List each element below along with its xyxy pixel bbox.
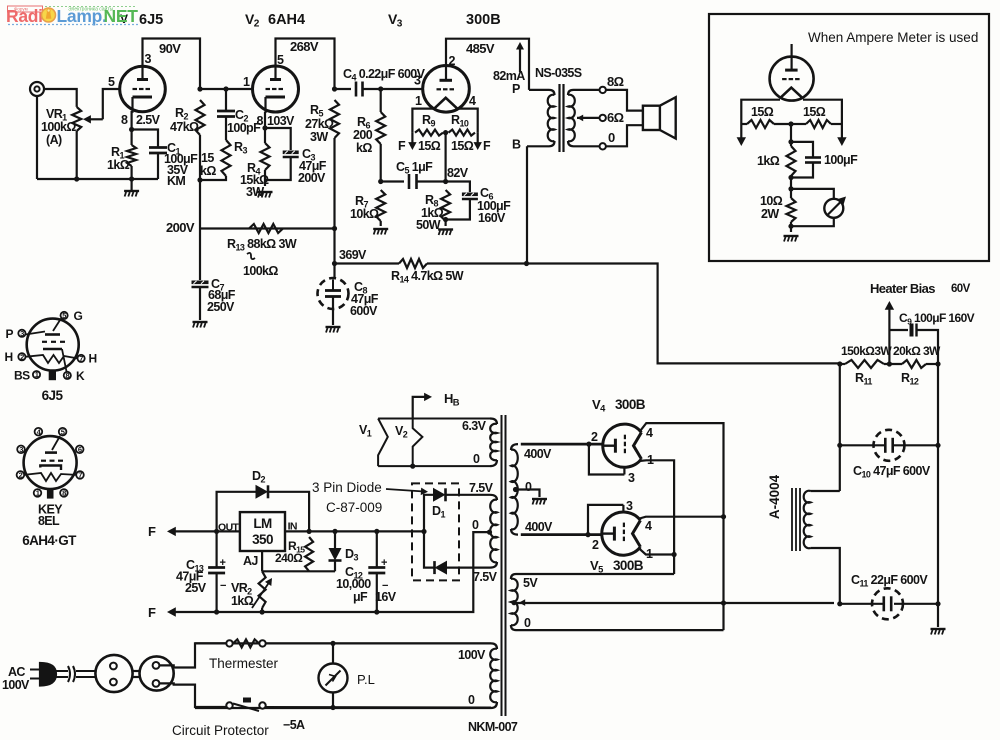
capacitor C10 can style <box>840 444 884 446</box>
svg-text:Circuit Protector: Circuit Protector <box>172 723 269 738</box>
svg-text:B: B <box>512 138 521 152</box>
svg-text:90V: 90V <box>159 41 181 56</box>
inset F arrow left <box>740 124 742 140</box>
svg-text:3: 3 <box>19 445 23 454</box>
svg-text:82mA: 82mA <box>493 69 525 83</box>
capacitor C13 <box>216 531 218 567</box>
svg-text:600V: 600V <box>350 304 378 318</box>
svg-text:8: 8 <box>62 489 66 498</box>
ground below R7 <box>373 228 388 230</box>
resistor R13 <box>249 224 283 233</box>
V4 pin 4 wire <box>641 423 724 630</box>
7.5V center tap <box>487 530 492 535</box>
arrow 82mA <box>519 46 521 72</box>
svg-text:1kΩ: 1kΩ <box>231 594 254 608</box>
pilot lamp P.L <box>332 643 334 663</box>
squiggle tilde <box>247 253 255 259</box>
svg-text:6: 6 <box>78 445 82 454</box>
svg-text:NET: NET <box>104 6 139 26</box>
wire jack down to bottom rail <box>36 96 38 179</box>
vacuum tube V5 300B rectifier <box>602 512 641 555</box>
circuit protector switch <box>226 702 232 708</box>
svg-text:100V: 100V <box>2 678 30 692</box>
diode D1 top <box>424 495 433 532</box>
V5 pin 4 wire <box>640 517 724 519</box>
wire protector to primary bottom <box>266 706 491 709</box>
svg-text:2: 2 <box>591 430 598 444</box>
svg-text:BS: BS <box>14 369 30 383</box>
ground below C7 <box>193 321 208 323</box>
svg-text:268V: 268V <box>290 39 319 54</box>
svg-text:7: 7 <box>78 471 82 480</box>
wire V2 plate to top rail <box>276 39 335 90</box>
400V center tap <box>513 487 518 492</box>
400V bottom rail to V5 <box>521 533 602 536</box>
svg-text:+: + <box>220 557 226 569</box>
svg-text:7.5V: 7.5V <box>469 481 494 495</box>
svg-text:LM: LM <box>253 516 272 531</box>
svg-text:2W: 2W <box>761 207 779 221</box>
svg-text:6J5: 6J5 <box>42 388 64 403</box>
svg-text:3: 3 <box>626 499 633 513</box>
svg-text:350: 350 <box>252 532 273 547</box>
svg-text:200V: 200V <box>298 171 326 185</box>
RadioLamp.NET logo <box>6 6 138 27</box>
svg-text:NKM-007: NKM-007 <box>468 720 518 734</box>
ground below R4 <box>258 191 273 193</box>
svg-text:F: F <box>398 139 406 153</box>
resistor R8 <box>441 190 450 221</box>
potentiometer VR1 <box>72 107 81 131</box>
pointer to D1 box <box>386 489 424 492</box>
primary 100V winding <box>195 642 491 644</box>
F arrow right <box>477 133 479 146</box>
diode D3 <box>334 531 336 548</box>
wire 8 Ohm to speaker <box>606 90 643 111</box>
AC connector socket circle <box>140 656 174 690</box>
svg-text:0: 0 <box>472 518 479 532</box>
ground below R8 <box>438 228 453 230</box>
F arrow bottom <box>167 607 176 616</box>
svg-text:KM: KM <box>167 174 185 188</box>
svg-text:1kΩ: 1kΩ <box>107 158 130 172</box>
svg-text:6J5: 6J5 <box>139 12 163 28</box>
svg-text:K: K <box>76 369 85 383</box>
V2 heater chevron <box>413 419 423 467</box>
svg-text:2: 2 <box>19 471 23 480</box>
svg-text:10Ω: 10Ω <box>760 194 783 208</box>
svg-text:Radi: Radi <box>6 6 43 26</box>
socket diagram 6AH4-GT <box>17 427 84 498</box>
svg-text:2: 2 <box>20 352 24 361</box>
ground below right bus <box>937 604 939 627</box>
resistor R3 <box>222 140 231 176</box>
svg-text:60V: 60V <box>951 283 971 295</box>
inset filament rail <box>741 100 780 124</box>
svg-text:16V: 16V <box>375 590 397 604</box>
svg-text:8: 8 <box>66 371 70 380</box>
wire V1 plate to top rail <box>143 39 201 90</box>
diode D2 top loop <box>217 492 256 532</box>
svg-text:100μF: 100μF <box>824 153 858 167</box>
inset F arrow right <box>841 124 843 140</box>
wire B from primary to 369V junction <box>526 146 528 263</box>
capacitor C1 <box>132 130 158 148</box>
secondary tap 0 <box>574 145 600 147</box>
speaker <box>643 106 660 130</box>
diode D1 bottom <box>424 532 435 568</box>
svg-text:kΩ: kΩ <box>200 164 216 178</box>
inset ampere meter <box>791 189 834 199</box>
5V winding <box>511 579 518 626</box>
svg-text:27kΩ: 27kΩ <box>305 117 334 131</box>
svg-text:82V: 82V <box>447 166 469 180</box>
svg-text:1: 1 <box>415 94 422 108</box>
node V1 plate to V2 grid coupling wire <box>200 88 253 90</box>
heater bias arrow <box>888 307 890 330</box>
svg-text:5V: 5V <box>523 576 538 590</box>
inset ground <box>784 235 799 237</box>
svg-text:AJ: AJ <box>243 554 258 568</box>
secondary tap 8 Ohm <box>574 89 600 91</box>
resistor R9 <box>415 130 443 136</box>
wire V2 cathode <box>264 112 266 143</box>
svg-text:100V: 100V <box>458 648 486 662</box>
heater loop V1 V2 6.3V winding <box>378 418 490 420</box>
AC connector plug circle <box>95 655 132 692</box>
V4 grid tie bracket <box>589 444 625 474</box>
6.3V winding <box>490 419 497 425</box>
wire 7.5V bottom to D1 <box>448 566 491 568</box>
svg-text:H: H <box>5 350 13 364</box>
resistor R4 <box>261 143 270 170</box>
wires socket to thermistor and protector <box>159 643 226 667</box>
input jack J1 <box>30 82 44 96</box>
svg-text:P.L: P.L <box>357 672 375 687</box>
F arrow left <box>411 133 413 146</box>
wire B junction to R11 <box>527 264 842 364</box>
svg-text:100kΩ: 100kΩ <box>243 264 278 278</box>
svg-text:μF: μF <box>353 590 368 604</box>
svg-text:250V: 250V <box>207 300 235 314</box>
svg-text:25V: 25V <box>185 581 207 595</box>
svg-text:10kΩ: 10kΩ <box>350 207 379 221</box>
svg-text:0: 0 <box>524 616 531 630</box>
svg-text:8Ω: 8Ω <box>607 74 624 89</box>
vacuum tube V4 300B rectifier <box>603 424 642 467</box>
resistor R7 <box>376 190 385 221</box>
svg-text:15: 15 <box>201 151 214 165</box>
ground below C8 <box>326 326 341 328</box>
svg-text:15Ω: 15Ω <box>418 139 441 153</box>
vacuum tube V3 300B <box>423 66 470 113</box>
wire jack to VR1 top <box>44 89 77 107</box>
inset resistor 15 Ohm right <box>806 120 831 128</box>
svg-text:G: G <box>74 309 83 323</box>
wire left bus to choke <box>839 363 841 491</box>
inset resistor 15 Ohm left <box>747 120 774 128</box>
svg-text:150kΩ3W: 150kΩ3W <box>841 344 892 358</box>
secondary tap 6 Ohm <box>577 117 600 119</box>
svg-text:6AH4: 6AH4 <box>268 12 305 28</box>
svg-text:0: 0 <box>525 480 532 494</box>
svg-text:Thermester: Thermester <box>209 656 279 671</box>
inset capacitor 100uF <box>791 142 813 157</box>
svg-text:100kΩ: 100kΩ <box>41 120 76 134</box>
svg-text:369V: 369V <box>339 248 367 262</box>
svg-text:(A): (A) <box>46 133 62 147</box>
capacitor C4 coupling <box>335 88 352 90</box>
svg-text:F: F <box>148 524 156 539</box>
F arrow top <box>167 527 176 536</box>
vacuum tube V2 6AH4 <box>253 66 299 112</box>
wire 5V top rail <box>516 573 674 575</box>
svg-text:400V: 400V <box>525 520 553 534</box>
vacuum tube V1 6J5 <box>120 66 166 112</box>
resistor R11 <box>845 360 884 368</box>
svg-text:AC: AC <box>8 665 25 679</box>
svg-text:5: 5 <box>108 75 115 89</box>
inset tube 300B <box>770 57 814 101</box>
svg-text:2: 2 <box>449 54 456 68</box>
svg-text:3 Pin Diode: 3 Pin Diode <box>312 480 382 495</box>
svg-text:A-4004: A-4004 <box>767 474 782 519</box>
svg-text:3: 3 <box>414 74 421 88</box>
capacitor C8 <box>333 264 335 279</box>
400V top rail to V4 <box>521 443 603 446</box>
resistor R6 <box>380 89 382 112</box>
svg-text:Heater Bias: Heater Bias <box>870 281 935 296</box>
svg-text:15Ω: 15Ω <box>751 105 774 119</box>
svg-text:103V: 103V <box>267 114 295 128</box>
choke A-4004 <box>811 490 840 492</box>
svg-text:15Ω: 15Ω <box>451 139 474 153</box>
wire IN line <box>285 530 424 532</box>
resistor R12 <box>902 360 926 368</box>
svg-text:P: P <box>6 327 14 341</box>
svg-text:−5A: −5A <box>283 718 305 732</box>
svg-text:−: − <box>220 580 226 592</box>
svg-text:7.5V: 7.5V <box>473 570 498 584</box>
thermistor <box>226 640 232 646</box>
svg-text:kΩ: kΩ <box>356 141 372 155</box>
svg-text:200V: 200V <box>166 220 195 235</box>
svg-text:C5 1μF: C5 1μF <box>396 160 433 176</box>
capacitor C2 <box>225 89 227 110</box>
capacitor C3 <box>265 128 291 150</box>
output transformer NS-035S primary <box>529 89 549 91</box>
V5 pin 1 wire <box>640 549 675 555</box>
svg-text:10,000: 10,000 <box>336 577 371 591</box>
400V winding <box>511 444 518 450</box>
capacitor C7 <box>199 229 201 281</box>
svg-text:+: + <box>381 557 387 569</box>
svg-text:160V: 160V <box>478 211 506 225</box>
svg-text:5: 5 <box>61 427 65 436</box>
LM350 box <box>240 512 285 551</box>
wire V3 plate to 485V rail <box>446 39 529 90</box>
svg-text:F: F <box>148 605 156 620</box>
resistor R5 <box>330 100 339 138</box>
resistor R10 <box>449 130 476 136</box>
svg-text:C-87-009: C-87-009 <box>326 500 382 515</box>
svg-text:0: 0 <box>473 452 480 466</box>
wire 369V rail with R14 <box>335 262 400 264</box>
svg-text:H: H <box>89 352 97 366</box>
svg-text:2: 2 <box>592 538 599 552</box>
svg-text:8: 8 <box>257 114 264 128</box>
svg-text:300B: 300B <box>613 558 644 573</box>
inset box when ampere meter is used <box>709 14 989 261</box>
svg-text:OUT: OUT <box>218 522 240 534</box>
capacitor C6 <box>446 182 470 193</box>
transformer core <box>558 84 560 152</box>
ground bus right <box>937 364 939 604</box>
svg-text:When Ampere Meter is used: When Ampere Meter is used <box>808 30 978 45</box>
svg-text:5: 5 <box>62 311 66 320</box>
wire bottom rail V1 stage <box>37 178 158 180</box>
svg-text:0: 0 <box>608 130 615 145</box>
power transformer core <box>501 415 503 716</box>
V1 heater chevron <box>378 419 388 467</box>
svg-text:20kΩ 3W: 20kΩ 3W <box>893 344 941 358</box>
svg-text:8EL: 8EL <box>38 514 60 528</box>
diode box D1 dashed <box>412 483 459 580</box>
inset resistor 1kOhm <box>790 124 792 146</box>
wire 200V rail <box>200 227 335 229</box>
svg-text:1: 1 <box>243 75 250 89</box>
V5 grid tie bracket <box>588 505 623 535</box>
svg-text:485V: 485V <box>466 41 495 56</box>
svg-text:F: F <box>483 139 491 153</box>
wire 0 to speaker <box>606 125 643 146</box>
svg-text:3: 3 <box>628 471 635 485</box>
svg-text:1kΩ: 1kΩ <box>757 154 780 168</box>
svg-text:1: 1 <box>36 489 40 498</box>
svg-text:15Ω: 15Ω <box>803 105 826 119</box>
svg-text:4: 4 <box>646 426 653 440</box>
VR1 wiper arrow <box>87 118 103 120</box>
5V center tap B+ line <box>511 600 516 605</box>
HB arrow <box>413 397 427 419</box>
svg-text:50W: 50W <box>416 218 441 232</box>
output transformer secondary <box>568 90 574 95</box>
svg-text:1: 1 <box>35 370 39 379</box>
capacitor C9 <box>888 330 890 364</box>
wire 7.5V top to D1 <box>448 494 491 496</box>
choke core <box>791 488 793 551</box>
socket diagram 6J5 <box>18 311 84 380</box>
resistor R2 <box>196 100 205 135</box>
capacitor C11 can style <box>516 602 834 604</box>
svg-text:3: 3 <box>20 329 24 338</box>
svg-text:3: 3 <box>145 52 152 66</box>
filament bracket pins 1 and 4 <box>412 109 434 133</box>
svg-text:240Ω: 240Ω <box>275 551 303 565</box>
svg-text:0: 0 <box>468 693 475 707</box>
V4 pin 1 wire <box>641 460 675 574</box>
7.5V windings <box>490 495 497 500</box>
capacitor C12 <box>376 531 378 567</box>
resistor R1 <box>127 145 136 166</box>
svg-text:C9 100μF 160V: C9 100μF 160V <box>899 311 975 327</box>
wire thermistor to primary top <box>266 642 491 644</box>
svg-text:3W: 3W <box>310 130 328 144</box>
svg-text:300B: 300B <box>615 397 646 412</box>
svg-text:Lamp.: Lamp. <box>57 6 107 26</box>
wire 0 rail to pin4 bus <box>516 629 724 631</box>
svg-text:8: 8 <box>121 113 128 127</box>
inset resistor 10 Ohm 2W <box>787 198 796 222</box>
svg-text:200: 200 <box>353 128 373 142</box>
svg-text:400V: 400V <box>524 447 552 461</box>
wire grid V1 to wiper <box>103 89 120 119</box>
svg-text:6.3V: 6.3V <box>462 419 487 433</box>
ground below R1 <box>131 179 133 190</box>
rheostat VR2 <box>259 571 266 608</box>
svg-text:6Ω: 6Ω <box>607 110 624 125</box>
svg-text:P: P <box>512 82 520 96</box>
wire V1 cathode <box>131 111 133 145</box>
svg-text:300B: 300B <box>466 12 501 28</box>
svg-text:47kΩ: 47kΩ <box>170 120 199 134</box>
svg-text:7: 7 <box>79 354 83 363</box>
svg-text:6AH4·GT: 6AH4·GT <box>22 533 77 548</box>
resistor R15 <box>305 537 313 571</box>
svg-text:4: 4 <box>645 519 652 533</box>
svg-text:2.5V: 2.5V <box>136 113 161 127</box>
AJ wire <box>261 551 263 571</box>
svg-text:5: 5 <box>277 53 284 67</box>
svg-text:NS-035S: NS-035S <box>535 66 582 80</box>
capacitor C5 <box>381 180 404 182</box>
svg-text:4: 4 <box>469 94 476 108</box>
